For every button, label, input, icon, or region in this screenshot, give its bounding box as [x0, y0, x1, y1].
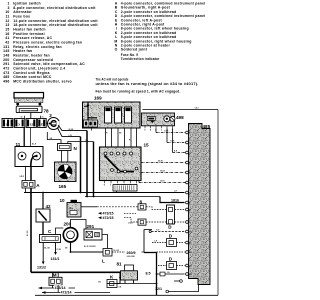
wire dashed 473/15 to E box [97, 206, 138, 208]
terminal 468 pin 8 [186, 208, 189, 211]
svg-text:485: 485 [203, 124, 211, 129]
wire 42 to C [42, 222, 44, 235]
positive terminal 16 [14, 93, 44, 106]
terminal 468 pin 2 [186, 141, 189, 144]
svg-text:30: 30 [21, 117, 23, 119]
terminal 468 bottom [180, 280, 183, 283]
wire 200 bottom to L [71, 242, 104, 252]
wire Y-GR ignition to 169 [58, 125, 87, 131]
terminal 468 pin 7 [186, 201, 189, 204]
wires 169 to heater fan switch 15 [105, 128, 107, 147]
wire long line to 42 [42, 193, 44, 210]
svg-text:8: 8 [140, 199, 143, 204]
resistor 148 [113, 185, 137, 193]
svg-text:unless the fan is running (sig: unless the fan is running (signal on #34… [96, 82, 199, 86]
svg-text:GR-R: GR-R [160, 181, 165, 183]
connector K [107, 274, 117, 287]
connector A [22, 181, 40, 189]
svg-text:12: 12 [30, 122, 34, 126]
wire 472/14 [42, 292, 110, 294]
svg-text:CA.9: CA.9 [195, 106, 199, 109]
wire M pin1 down [52, 285, 54, 288]
wire 15 to 468 pin3 [172, 128, 174, 152]
terminal 468 pin 13 [186, 264, 189, 267]
instrument unit 498 [142, 113, 185, 126]
terminal 468 pin 5 [186, 171, 189, 174]
svg-text:MCC distribution shutter, serv: MCC distribution shutter, servo [13, 79, 72, 83]
wire A left pin to long line [25, 188, 27, 193]
connector D2 [167, 234, 177, 247]
legend right column [114, 2, 205, 62]
junction dots [42, 192, 44, 194]
svg-text:E: E [41, 122, 43, 126]
svg-text:D+: D+ [70, 206, 74, 210]
wire thick vertical right [86, 131, 88, 197]
wire 15 to 485 pin6 [138, 181, 140, 183]
svg-text:GR-W: GR-W [160, 171, 165, 173]
wire N pins to fan [61, 151, 63, 163]
svg-text:BL-R: BL-R [32, 144, 37, 146]
wire GR to N [47, 132, 61, 144]
pins 498 [144, 126, 174, 132]
svg-text:498: 498 [176, 115, 184, 120]
ground bus [31, 271, 120, 273]
ignition switch 2 [48, 113, 60, 130]
svg-text:260/9: 260/9 [127, 251, 136, 255]
wire 10 D+ out [81, 206, 97, 208]
solenoid valve 291 [84, 224, 102, 240]
wire M pin2 down [57, 285, 59, 292]
wire L to 260/9 [112, 251, 125, 253]
terminal 468 pin 6 [186, 191, 189, 194]
terminal 468 pin 10 [186, 230, 189, 233]
connector M [49, 273, 62, 286]
svg-text:169: 169 [94, 96, 102, 101]
wire fuse to connector row [30, 113, 32, 119]
wire C left pin to 131/2 [42, 243, 44, 263]
svg-text:15: 15 [144, 143, 150, 148]
svg-text:13: 13 [5, 122, 9, 126]
svg-text:1816: 1816 [171, 199, 179, 203]
pressure sensor 42 [36, 204, 51, 222]
svg-text:GR-R: GR-R [20, 176, 25, 178]
wire row 252 to 468 pin12 [157, 251, 185, 253]
terminal 468 pin 12 [186, 251, 189, 254]
connector D3 [167, 257, 177, 270]
compressor solenoid 200 [63, 221, 77, 242]
label 472/15 [98, 216, 102, 219]
svg-text:11: 11 [16, 142, 21, 147]
svg-text:8.5: 8.5 [146, 272, 151, 276]
terminal 468 pin 9 [186, 221, 189, 224]
connector D [167, 205, 175, 229]
connector row 13 / 3 / 12 (distribution unit) [2, 119, 46, 128]
terminal 468 pin 11 [186, 241, 189, 244]
frame top line CA.9 [143, 109, 219, 111]
wire 15 to 468 pin4 [141, 162, 185, 164]
connector C [40, 229, 61, 242]
heater fan 145 [55, 162, 77, 189]
alternator 10 [60, 198, 82, 217]
wire 200 top [71, 220, 87, 230]
svg-text:473/14: 473/14 [55, 286, 66, 290]
wire E to D [146, 207, 167, 210]
wire D3 row [158, 265, 167, 267]
terminal 468 pin 4 [186, 161, 189, 164]
svg-text:BL-GR: BL-GR [114, 250, 120, 252]
wire 291 to L [102, 235, 108, 249]
wire K to 41 to vertical [117, 283, 157, 285]
junction M left [52, 271, 54, 273]
wire 11 to A [25, 167, 27, 181]
connector H [128, 219, 146, 225]
svg-text:LH2.4: LH2.4 [128, 222, 133, 225]
terminal 468 pin 14 [186, 273, 189, 276]
wire row to fuse box 11 [23, 128, 25, 147]
wire dashed 472/15 [124, 218, 138, 222]
wire thick vertical left [80, 137, 82, 193]
svg-text:Fan must be running at speed 1: Fan must be running at speed 1, with AC … [96, 89, 181, 93]
svg-text:Y-W: Y-W [156, 230, 160, 232]
frame bottom line [35, 294, 218, 296]
heater fan switch 15 [100, 143, 150, 181]
svg-text:131/2: 131/2 [37, 265, 46, 269]
label 473/15 [98, 212, 102, 215]
wire C right pin to 131/1 [55, 243, 57, 253]
legend left column [3, 2, 98, 84]
svg-text:R-SB: R-SB [57, 249, 62, 251]
svg-text:10: 10 [60, 198, 66, 203]
wire bus to K [107, 283, 120, 285]
terminal 468 pin 3 [186, 151, 189, 154]
wire battery left pin [17, 105, 19, 107]
svg-text:15: 15 [42, 117, 44, 119]
svg-text:131/1: 131/1 [51, 257, 60, 261]
svg-text:BL-R 230/2SB: BL-R 230/2SB [84, 246, 96, 248]
svg-text:473/15: 473/15 [103, 211, 114, 215]
wire 468 bottom loop 12/1 [169, 285, 199, 292]
svg-text:Turn/direction indicator: Turn/direction indicator [121, 57, 160, 61]
wire D to 468 pin8 [175, 209, 185, 211]
svg-text:472/15: 472/15 [103, 216, 114, 220]
wire A right pin down bus [30, 188, 32, 272]
wire 498 to 468 pin2 [166, 128, 168, 142]
pin labels above row [24, 116, 26, 119]
terminal 468 pin 1 [186, 131, 189, 134]
note text [96, 78, 199, 94]
svg-text:472/14: 472/14 [61, 290, 72, 294]
svg-text:O: O [115, 48, 118, 52]
wire D to 468 pin9 [175, 221, 185, 223]
svg-text:Y-GR: Y-GR [164, 131, 169, 133]
fuse 78 [16, 106, 49, 113]
svg-text:165: 165 [59, 184, 67, 189]
wire long bus to 468 pin6 [24, 192, 185, 194]
wire N right pin up [68, 142, 94, 144]
svg-text:#260-2/9B: #260-2/9B [127, 256, 136, 258]
svg-text:L: L [102, 259, 105, 264]
wire row 271 to 468 pin14 [157, 273, 185, 275]
wire 15 to 468 pin5 [141, 172, 185, 174]
svg-text:M: M [53, 273, 57, 278]
wire C right pin up to 200 [56, 228, 64, 235]
connector N [58, 144, 78, 152]
wire vertical mid-right [144, 229, 152, 231]
fuse box 11 [15, 142, 43, 167]
svg-text:BL-GR: BL-GR [27, 230, 29, 236]
wire 473/14 [39, 287, 76, 289]
pressure switch 41 [117, 262, 138, 284]
wire 498 to 468 pin1 [155, 128, 157, 132]
svg-text:BL-SB: BL-SB [44, 248, 50, 250]
svg-text:L-W: L-W [69, 135, 73, 137]
wire battery right pin [39, 105, 41, 106]
connector L [102, 249, 112, 264]
wire row to ignition switch [46, 122, 47, 124]
svg-text:496: 496 [3, 79, 9, 83]
svg-text:42: 42 [46, 204, 52, 209]
wire to 468 pin10 [149, 230, 151, 232]
svg-text:81: 81 [117, 262, 123, 267]
wire D2 row [152, 242, 167, 244]
connector E (8) [138, 199, 146, 210]
svg-text:Soldered joint: Soldered joint [121, 48, 148, 52]
wire 1816 to 468 pin7 [160, 197, 185, 203]
wire H to D [146, 221, 167, 223]
wire y196 [85, 196, 160, 198]
svg-text:W-GR: W-GR [69, 129, 75, 131]
svg-text:SB-W: SB-W [158, 161, 163, 163]
svg-text:291: 291 [87, 224, 95, 229]
wire 260/9 to vertical [142, 251, 145, 253]
control unit 468 [189, 124, 211, 285]
wire L-W ignition to 169 [58, 128, 81, 137]
svg-text:2: 2 [49, 113, 52, 118]
frame right line [217, 110, 219, 296]
pin numbers under 15 [104, 181, 138, 187]
control panel 169 [83, 96, 141, 131]
svg-text:12/1: 12/1 [155, 287, 162, 291]
